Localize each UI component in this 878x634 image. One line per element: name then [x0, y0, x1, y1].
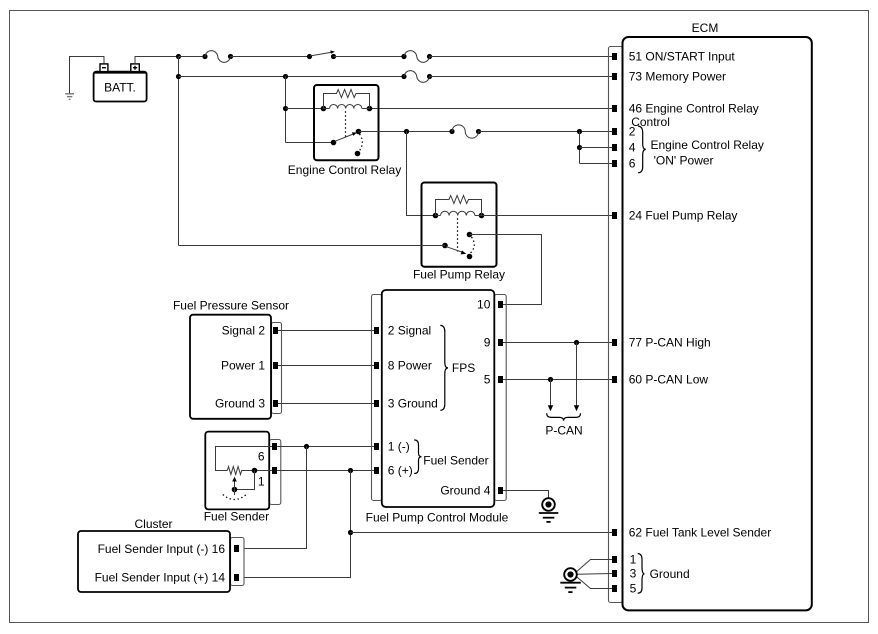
svg-text:Engine Control Relay: Engine Control Relay — [651, 138, 764, 152]
fuse F4 (relay output) — [449, 125, 481, 138]
wire: fuel pump relay coil to ECM pin 24 — [482, 215, 613, 217]
relay box: Engine Control Relay — [314, 85, 379, 160]
svg-text:Control: Control — [631, 115, 670, 129]
wire: vertical branch to pins 4 and 6 — [579, 132, 581, 164]
ground (battery negative) — [65, 94, 74, 100]
svg-text:Cluster: Cluster — [134, 517, 172, 531]
pin: FPS Power 1 — [273, 362, 278, 369]
wire: FPS ground to FPCM pin 3 — [278, 403, 374, 405]
internal wire: pin 6 loop — [216, 447, 273, 471]
wire: to ECM pin 62 — [351, 532, 613, 534]
wire: relay coil wire to coil left — [286, 108, 324, 110]
pin: fuel sender 1 — [272, 467, 277, 474]
wire: vertical feed from node A down to fuel pump relay switch — [178, 57, 180, 246]
fuse F3 — [401, 71, 432, 83]
svg-text:77 P-CAN High: 77 P-CAN High — [629, 336, 711, 350]
pin: FPCM 3 — [374, 400, 379, 407]
svg-text:Fuel Sender Input (-) 16: Fuel Sender Input (-) 16 — [98, 542, 226, 556]
pin: ECM ground 3 — [612, 570, 617, 577]
wire: cluster pin 16 to fuel sender (-) wire — [244, 447, 307, 549]
wire: FPS power to FPCM pin 8 — [278, 365, 374, 367]
pin: FPCM 9 — [498, 339, 503, 346]
svg-text:6: 6 — [629, 157, 636, 171]
svg-text:62 Fuel Tank Level Sender: 62 Fuel Tank Level Sender — [629, 526, 772, 540]
svg-text:4: 4 — [629, 141, 636, 155]
wire: top feed y56 segment 4 to ECM pin 51 — [430, 56, 613, 58]
svg-text:10: 10 — [477, 298, 491, 312]
svg-text:Ground: Ground — [650, 567, 690, 581]
svg-text:Ground 3: Ground 3 — [215, 397, 265, 411]
svg-text:Fuel Pump Relay: Fuel Pump Relay — [413, 268, 505, 282]
module box: ECM — [609, 21, 812, 610]
wire: vertical drop to engine control relay — [285, 77, 287, 143]
fuse F2 — [401, 51, 432, 63]
wire: memory power y76 segment 1 — [179, 76, 405, 78]
svg-text:Fuel Sender: Fuel Sender — [204, 510, 269, 524]
pin: ECM ground 5 — [612, 585, 617, 592]
node junction P-CAN high — [574, 340, 579, 345]
switch arm (engine control relay) — [331, 129, 363, 157]
svg-text:1: 1 — [630, 553, 637, 567]
svg-text:51 ON/START Input: 51 ON/START Input — [629, 50, 736, 64]
svg-text:Fuel Pump Control Module: Fuel Pump Control Module — [366, 510, 509, 524]
wire: fan to pin 1 — [577, 560, 612, 572]
resistor (fuel sender) — [227, 467, 272, 475]
svg-text:Ground 4: Ground 4 — [440, 484, 490, 498]
node junction on memory power wire — [176, 74, 181, 79]
node junction (wiper tap) — [252, 468, 258, 474]
pin: ECM 51 — [612, 53, 617, 60]
wire: FPS signal to FPCM pin 2 — [278, 330, 374, 332]
wire: fuel sender 1 to FPCM pin 6 — [277, 470, 374, 472]
svg-text:6: 6 — [258, 449, 265, 463]
wire: branch to ECM pin 6 — [580, 163, 613, 165]
pin: FPCM 6 — [374, 467, 379, 474]
P-CAN stub arrows — [548, 343, 579, 412]
pin: FPCM 8 — [374, 362, 379, 369]
resistor R (engine control relay, parallel) — [324, 90, 370, 109]
pin: FPS Signal 2 — [273, 327, 278, 334]
pin: ECM 24 — [612, 212, 617, 219]
wire: relay output to fuse (wire 2) — [359, 131, 453, 133]
pin: cluster 14 — [234, 574, 239, 581]
pin: FPCM 4 ground — [498, 487, 503, 494]
wire: fan to pin 5 — [577, 577, 612, 589]
pin: FPCM 2 — [374, 327, 379, 334]
module box: Fuel Pump Control Module — [366, 290, 509, 524]
module box: Cluster — [78, 517, 244, 592]
wire: cluster pin 14 to fuel sender (+) wire — [244, 471, 351, 578]
wire: fuel pump relay output to FPCM pin 10 — [470, 235, 542, 305]
pin: ECM 60 — [612, 376, 617, 383]
wire: FPCM pin 5 to ECM pin 60 — [503, 379, 612, 381]
module box: Fuel Pressure Sensor — [173, 299, 289, 419]
wire: battery feed to fuel pump relay switch — [179, 245, 446, 247]
resistor R (fuel pump relay, parallel) — [436, 196, 482, 216]
svg-text:1: 1 — [258, 474, 265, 488]
coil L (fuel pump relay) — [433, 211, 485, 218]
wire: top feed y56 segment 2 — [231, 56, 310, 58]
node junction fuel tank level sender — [348, 530, 353, 535]
wire: memory power y76 segment 2 to ECM pin 73 — [430, 76, 613, 78]
module box: Fuel Sender — [204, 432, 281, 524]
pin: FPS Ground 3 — [273, 400, 278, 407]
node junction pin 2 branch — [577, 129, 582, 134]
svg-text:Fuel Sender Input (+) 14: Fuel Sender Input (+) 14 — [95, 571, 226, 585]
svg-text:2 Signal: 2 Signal — [388, 324, 431, 338]
node junction to cluster (-) — [304, 444, 309, 449]
wire: branch to ECM pin 4 — [580, 147, 613, 149]
wiper pivot and arrow — [223, 477, 246, 500]
node junction P-CAN low — [548, 377, 553, 382]
node junction memory power to engine control relay — [283, 74, 288, 79]
svg-text:'ON' Power: 'ON' Power — [654, 154, 714, 168]
wire: battery positive to node A — [135, 57, 179, 64]
svg-text:60 P-CAN Low: 60 P-CAN Low — [629, 373, 709, 387]
svg-text:5: 5 — [630, 582, 637, 596]
svg-text:FPS: FPS — [452, 361, 475, 375]
pin: FPCM 10 — [498, 301, 503, 308]
svg-text:3: 3 — [630, 567, 637, 581]
brace: Fuel Sender group — [414, 440, 421, 474]
svg-text:Fuel Sender: Fuel Sender — [423, 454, 488, 468]
svg-text:24 Fuel Pump Relay: 24 Fuel Pump Relay — [629, 209, 738, 223]
svg-text:3 Ground: 3 Ground — [388, 397, 438, 411]
dotted actuator line (fuel pump relay) — [457, 218, 459, 251]
svg-text:5: 5 — [484, 373, 491, 387]
node junction to cluster (+) — [348, 468, 353, 473]
svg-text:P-CAN: P-CAN — [545, 423, 582, 437]
coil L (engine control relay) — [321, 104, 373, 111]
wire: FPCM pin 9 to ECM pin 77 — [503, 342, 612, 344]
node A junction (battery feed) — [176, 54, 181, 59]
wire: to engine control relay switch contact — [286, 142, 334, 144]
wire: coil right to ECM pin 46 — [370, 108, 613, 110]
node junction pin 4 branch — [577, 145, 582, 150]
svg-text:9: 9 — [484, 336, 491, 350]
svg-text:Signal 2: Signal 2 — [222, 324, 266, 338]
switch arm (fuel pump relay) — [442, 232, 474, 260]
svg-text:73 Memory Power: 73 Memory Power — [629, 70, 726, 84]
pin: ECM 77 — [612, 339, 617, 346]
wire: FPCM ground 4 to chassis ground — [503, 491, 549, 499]
pin: ECM 62 — [612, 529, 617, 536]
wire: top feed y56 segment 3 — [334, 56, 405, 58]
battery BATT. — [94, 64, 147, 102]
pin: ECM 46 — [612, 105, 617, 112]
brace: pins 2/4/6 group — [638, 126, 646, 173]
svg-text:Power 1: Power 1 — [221, 359, 265, 373]
svg-text:46 Engine Control Relay: 46 Engine Control Relay — [629, 102, 759, 116]
ground: chassis ground (ECM pins 1/3/5) — [560, 560, 612, 593]
brace: ground pins group — [638, 554, 645, 594]
node junction on relay coil wire (46) — [283, 106, 288, 111]
pin: FPCM 1 — [374, 443, 379, 450]
svg-text:8 Power: 8 Power — [388, 359, 432, 373]
wire: top feed y56 segment 1 — [179, 56, 206, 58]
pin: ECM 6 — [612, 160, 617, 167]
pin: ECM 4 — [612, 144, 617, 151]
relay box: Fuel Pump Relay — [422, 183, 497, 267]
wire: battery negative to ground — [70, 57, 105, 94]
pin: FPCM 5 — [498, 376, 503, 383]
pin: ECM 2 — [612, 128, 617, 135]
svg-text:ECM: ECM — [692, 21, 719, 35]
fuse F1 — [202, 51, 233, 63]
wire: fuse to ECM pin 2 — [479, 131, 613, 133]
pin: cluster 16 — [234, 545, 239, 552]
pin: fuel sender 6 — [272, 443, 277, 450]
node junction to fuel pump relay coil — [404, 129, 409, 134]
wire: fuel sender 6 to FPCM pin 1 — [277, 446, 374, 448]
wire: vertical to fuel pump relay coil — [407, 132, 436, 216]
wire: fan to pin 3 — [577, 573, 612, 576]
wiper arm wire — [235, 471, 255, 490]
svg-text:6 (+): 6 (+) — [388, 464, 413, 478]
svg-text:BATT.: BATT. — [104, 81, 136, 95]
pin: ECM 73 — [612, 73, 617, 80]
brace: FPS group — [440, 325, 448, 410]
ground: chassis ground (FPCM) — [539, 498, 559, 522]
svg-text:Engine Control Relay: Engine Control Relay — [288, 163, 401, 177]
pin: ECM ground 1 — [612, 556, 617, 563]
switch (ignition) on top feed — [307, 50, 336, 59]
svg-text:2: 2 — [629, 125, 636, 139]
svg-text:Fuel Pressure Sensor: Fuel Pressure Sensor — [173, 299, 289, 313]
svg-text:1 (-): 1 (-) — [388, 440, 410, 454]
dotted actuator line (engine control relay) — [345, 111, 347, 137]
brace: P-CAN — [547, 413, 581, 420]
